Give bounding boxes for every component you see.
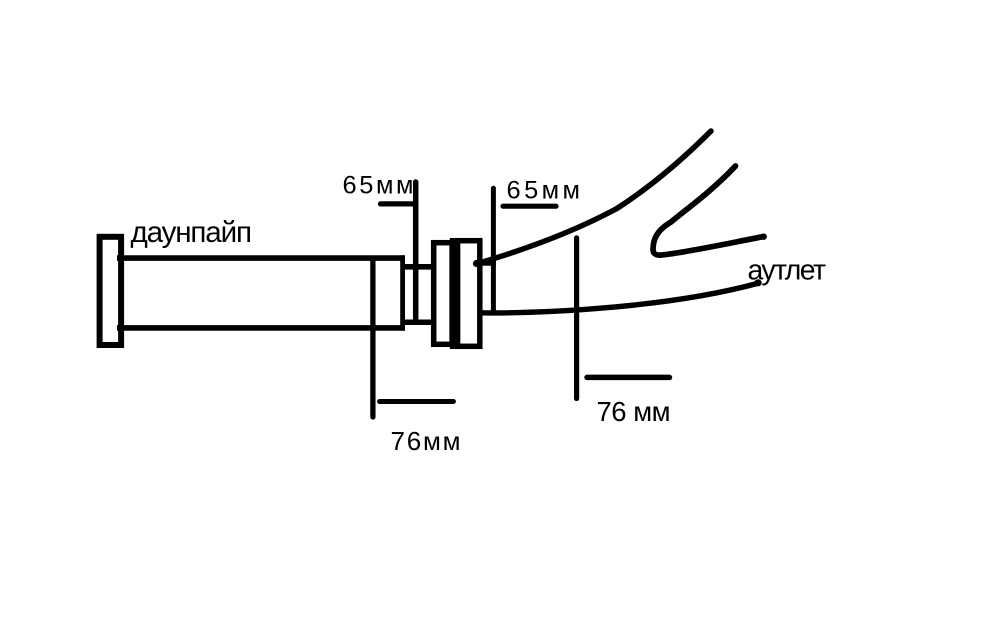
outlet bottom curve end dot xyxy=(754,279,761,286)
left 65мм measure line xyxy=(413,182,419,320)
svg-text:65мм: 65мм xyxy=(507,176,581,204)
outlet bottom curve xyxy=(480,283,759,313)
svg-text:65мм: 65мм xyxy=(343,171,414,199)
downpipe bottom wall xyxy=(117,325,405,331)
right 65мм tick xyxy=(503,204,556,209)
downpipe top wall xyxy=(117,255,405,261)
svg-text:даунпайп: даунпайп xyxy=(131,216,253,249)
right 76 мм tick xyxy=(587,375,670,381)
right 76 мм measure line xyxy=(574,238,579,399)
flange plate A xyxy=(434,243,452,345)
reducer stub top wall xyxy=(405,264,431,270)
outlet top curve start dot xyxy=(473,260,480,267)
right 65мм measure line xyxy=(491,188,496,311)
left 76мм tick xyxy=(380,399,454,404)
reducer stub bottom wall xyxy=(405,320,431,326)
downpipe end cap seam xyxy=(400,255,405,330)
svg-text:76 мм: 76 мм xyxy=(597,396,671,427)
svg-text:аутлет: аутлет xyxy=(748,255,827,287)
left 65мм tick xyxy=(381,201,414,206)
flange gasket bar between plates xyxy=(450,238,460,349)
svg-text:76мм: 76мм xyxy=(391,426,461,456)
outlet stub top wall xyxy=(483,261,497,266)
outlet inner branch end dot xyxy=(760,234,766,240)
flange plate B xyxy=(458,241,480,347)
left 76мм measure line (through pipe) xyxy=(370,259,375,417)
outlet top curve xyxy=(476,131,711,264)
outlet inner branch curve xyxy=(653,166,764,255)
left flange plate of downpipe xyxy=(100,237,122,345)
